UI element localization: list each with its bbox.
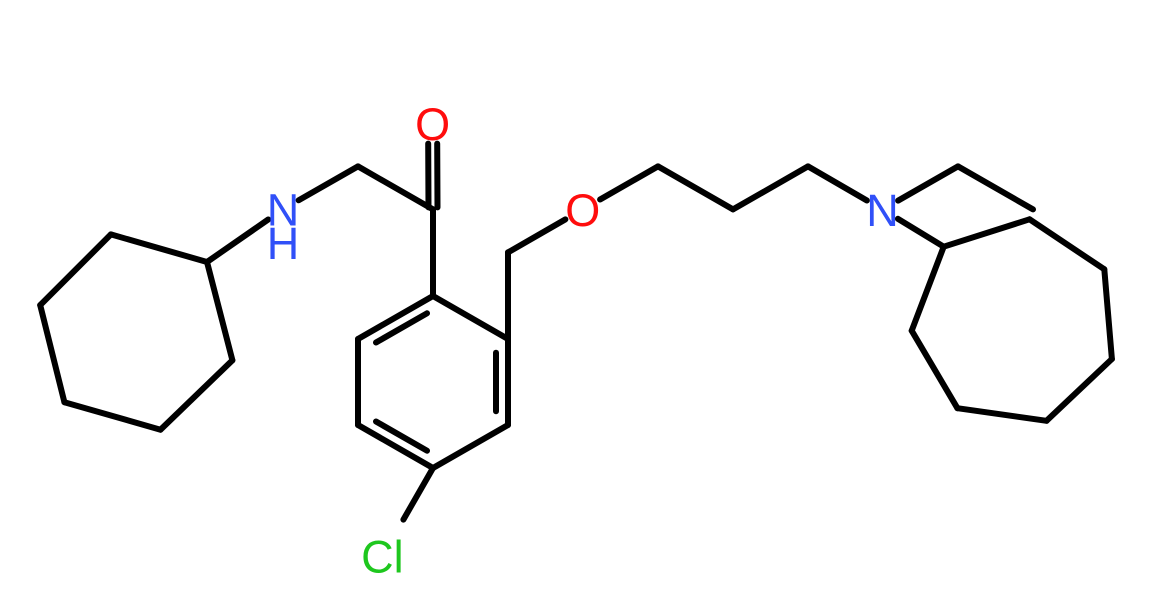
- wire: bond CH2-CH2 chain b: [733, 166, 808, 209]
- wire: bond CH2-CH2 chain: [658, 166, 733, 209]
- wire: bond aryl-CH2 benzylic: [505, 252, 511, 339]
- wire: bond N2-ethyl CH2: [898, 166, 958, 200]
- right cycloheptane ring: [912, 219, 1112, 420]
- svg-text:H: H: [267, 218, 300, 269]
- wire: bond CH2-C(=O): [358, 166, 433, 209]
- left cyclohexane ring: [40, 234, 232, 429]
- wire: bond ethyl CH2-CH3: [958, 166, 1033, 209]
- wire: bond C(=O)-aryl: [430, 209, 436, 296]
- wire: bond CH2-O ether: [508, 219, 565, 252]
- wire: bond N1-cyclohexyl C1: [207, 220, 268, 263]
- wire: bond aryl-Cl: [403, 468, 433, 520]
- svg-text:O: O: [565, 185, 600, 236]
- central benzene ring with aromatic double bonds: [358, 296, 508, 468]
- carbonyl C=O double bond: [428, 144, 437, 208]
- svg-text:N: N: [866, 185, 899, 236]
- wire: bond N1-CH2: [299, 166, 358, 200]
- wire: bond N2-cycloheptyl: [898, 219, 944, 247]
- svg-text:O: O: [415, 99, 450, 150]
- svg-text:Cl: Cl: [361, 532, 404, 583]
- wire: bond CH2-N2: [808, 166, 867, 200]
- wire: bond O-CH2 chain: [600, 166, 658, 199]
